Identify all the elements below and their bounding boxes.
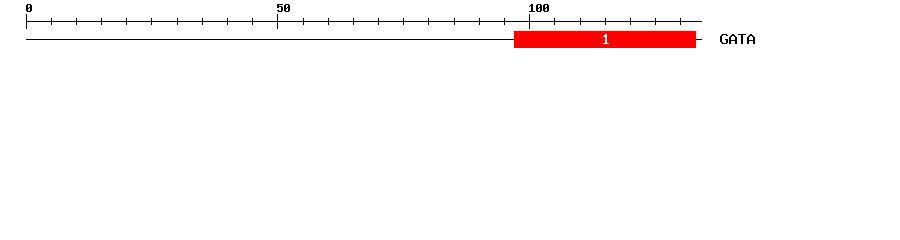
ruler axis line [26,21,702,22]
major tick 0 [26,14,27,29]
ruler label 50 [277,4,290,12]
major tick 100 [529,14,530,29]
track label GATA [720,34,755,44]
ruler label 0 [26,4,32,12]
minor ticks [51,18,681,25]
major tick 50 [277,14,278,29]
background [0,0,900,58]
feature box (GATA domain hit) [514,31,696,48]
feature number 1 [603,34,609,44]
sequence line [26,39,702,40]
ruler label 100 [529,4,549,12]
